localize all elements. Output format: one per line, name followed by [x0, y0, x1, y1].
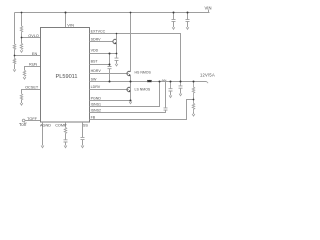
svg-text:RUN: RUN	[29, 62, 37, 66]
resistor R-COMP	[64, 127, 66, 134]
svg-text:ISNS1: ISNS1	[91, 103, 101, 107]
svg-text:BST: BST	[91, 59, 99, 63]
wire	[14, 50, 16, 56]
wire EXTVCC pin to output	[90, 34, 181, 82]
wire left column drop x=21.5	[21, 13, 23, 27]
wire VIN top rail	[15, 12, 210, 14]
inductor L1	[147, 80, 152, 82]
svg-text:OVLO: OVLO	[28, 34, 39, 38]
node rail/C-IN1	[173, 12, 175, 14]
svg-text:SW: SW	[91, 78, 97, 82]
node rail/VIN chip	[65, 12, 67, 14]
svg-text:LS NMOS: LS NMOS	[135, 87, 151, 91]
wire ISNS2 pin	[90, 110, 166, 112]
ground R-FB	[192, 114, 195, 116]
wire OCSET pin	[22, 90, 41, 94]
svg-text:ISNS2: ISNS2	[91, 108, 101, 112]
svg-text:EN: EN	[32, 52, 38, 56]
junction dots	[14, 12, 195, 102]
capacitor C-VDD	[115, 54, 119, 61]
wire VDD pin	[90, 53, 117, 55]
ground SS	[81, 146, 84, 148]
node PGND	[130, 100, 132, 102]
svg-text:OCSET: OCSET	[25, 85, 39, 89]
resistor R-OVLO-top	[20, 26, 22, 34]
wire	[14, 65, 16, 69]
node OVLO divider	[21, 37, 23, 39]
svg-text:VIN: VIN	[205, 5, 212, 10]
capacitor C-OUT2	[179, 82, 183, 89]
ground AGND	[41, 146, 44, 148]
resistor R-OVLO-bot	[20, 43, 22, 49]
capacitor C-IN1	[172, 20, 176, 22]
wire ISNS1 pin	[90, 82, 160, 107]
node EXTVCC/Q1	[116, 33, 118, 35]
svg-text:TOFF: TOFF	[27, 117, 38, 121]
resistor R-FB-top	[192, 82, 194, 97]
svg-text:LDRV: LDRV	[91, 85, 101, 89]
wire VIN drop into chip top	[65, 13, 67, 28]
svg-text:Toff: Toff	[19, 122, 27, 127]
node HS gate arrow	[129, 74, 130, 75]
wire EN pin	[15, 55, 41, 57]
node C-OUT1 tap	[170, 81, 172, 83]
wire SW pin / output line	[90, 81, 148, 83]
wire VDD to BST link	[109, 54, 111, 65]
transistor Q-LS gate arc	[127, 87, 130, 91]
node SW junction	[130, 81, 132, 83]
resistor RS sense value blob	[162, 80, 166, 81]
wire left column drop x=14.5	[14, 13, 16, 45]
wire LDRV pin	[90, 89, 129, 91]
ground C-OUT1	[169, 95, 172, 97]
node FB divider tap	[193, 81, 195, 83]
ground RUN	[23, 77, 26, 79]
resistor R-EN-bot	[13, 56, 15, 66]
wire TOFF pin	[25, 120, 41, 122]
ground COMP	[64, 146, 67, 148]
ground OVLO divider	[20, 50, 23, 52]
svg-text:AGND: AGND	[40, 123, 51, 127]
capacitor C-OUT1	[169, 82, 173, 92]
wire BST pin	[90, 64, 110, 66]
wire Q1 channel	[116, 34, 118, 54]
svg-text:VDD: VDD	[91, 49, 99, 53]
resistor R-EN-top	[13, 44, 15, 50]
terminal output tick	[207, 82, 209, 84]
node ISNS1 tap	[159, 81, 161, 83]
capacitor C-IN2	[186, 20, 190, 22]
node rail/OVLO	[21, 12, 23, 14]
node rail/HS drain	[130, 12, 132, 14]
transistor Q-HS gate arc	[127, 71, 130, 75]
wire	[21, 100, 23, 103]
svg-text:SS: SS	[83, 123, 89, 127]
node rail/C-IN2	[187, 12, 189, 14]
resistor R-RUN	[23, 70, 25, 76]
svg-text:PL59011: PL59011	[56, 74, 78, 80]
svg-text:VIN: VIN	[67, 23, 74, 28]
ground PGND	[129, 102, 132, 104]
wire LS channel to PGND	[130, 75, 132, 100]
wire SDRV pin	[90, 41, 114, 43]
capacitor C-BST bootstrap	[108, 65, 112, 69]
wire input cap drop 2	[187, 13, 189, 20]
node Q1 emitter	[115, 42, 116, 43]
wire	[65, 134, 67, 140]
wire PGND pin	[90, 100, 131, 102]
resistor R-OCSET	[20, 94, 22, 100]
ground C-IN2	[186, 27, 189, 29]
node VDD/Q1	[116, 53, 118, 55]
svg-text:FB: FB	[91, 116, 96, 120]
wire AGND down	[42, 122, 44, 146]
ground C-VDD	[115, 64, 118, 66]
node LS gate arrow	[129, 90, 130, 91]
capacitor C-SS	[81, 137, 85, 139]
node BST cap	[109, 64, 111, 66]
svg-text:PGND: PGND	[91, 96, 102, 100]
node FB mid	[193, 99, 195, 101]
node C-OUT2 / EXTVCC tap	[180, 81, 182, 83]
capacitor C-COMP	[64, 140, 68, 142]
wire RUN pin	[25, 67, 41, 71]
svg-text:SDRV: SDRV	[91, 38, 102, 42]
resistor R-FB-bot	[192, 100, 194, 112]
wire OVLO pin	[22, 37, 41, 39]
ground EN divider	[13, 69, 16, 71]
wire HS drain drop from rail	[130, 13, 132, 72]
ground OCSET	[20, 103, 23, 105]
terminal Toff open circle	[22, 119, 25, 122]
ground C-OUT2	[179, 94, 182, 96]
ground C-IN1	[172, 27, 175, 29]
wire	[21, 34, 23, 44]
wire SS down	[82, 122, 84, 137]
node VDD link	[109, 53, 111, 55]
svg-text:COMP: COMP	[55, 123, 67, 127]
transistor Q1 pass gate arc	[113, 39, 116, 43]
svg-text:HDRV: HDRV	[91, 69, 102, 73]
node BST cap to SW	[109, 81, 111, 83]
svg-text:12V/5A: 12V/5A	[200, 73, 215, 78]
wire HDRV pin	[90, 73, 129, 75]
op chip body PL59011	[41, 28, 90, 123]
wire input cap drop 1	[173, 13, 175, 20]
svg-text:HS NMOS: HS NMOS	[135, 71, 152, 75]
wire FB pin	[90, 100, 194, 120]
svg-text:EXTVCC: EXTVCC	[91, 30, 106, 34]
node EN divider	[14, 55, 16, 57]
terminal tick VIN top right	[208, 10, 210, 13]
capacitor C-ISNS	[164, 108, 168, 110]
wire COMP down	[65, 122, 67, 127]
